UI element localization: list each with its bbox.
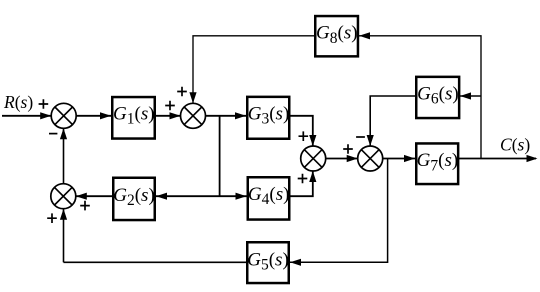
svg-text:G4(s): G4(s) [248, 184, 290, 208]
svg-text:G3(s): G3(s) [248, 103, 290, 127]
svg-text:G5(s): G5(s) [247, 249, 289, 273]
svg-text:G8(s): G8(s) [316, 23, 358, 47]
svg-text:G7(s): G7(s) [417, 150, 459, 174]
svg-text:C(s): C(s) [500, 134, 530, 154]
svg-text:G6(s): G6(s) [417, 83, 459, 107]
svg-text:G1(s): G1(s) [113, 103, 155, 127]
svg-text:G2(s): G2(s) [113, 185, 155, 209]
svg-text:R(s): R(s) [3, 92, 33, 112]
